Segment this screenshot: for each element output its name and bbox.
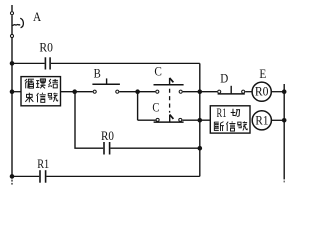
svg-text:B: B [94,66,101,81]
svg-text:A: A [33,9,42,24]
box 循環結束信號 [21,77,61,106]
wire C NC to box2 [182,119,210,121]
switch A blade [12,24,20,25]
right rail dashed continuation [283,181,285,183]
contact C NC terminal left [156,118,159,121]
junction dot rail/row1 [10,61,15,66]
branch vertical from box1 output down [75,92,103,149]
pushbutton D bar (below circles) [218,93,245,95]
contact C NO arrow stem [169,78,171,85]
svg-text:D: D [220,70,228,85]
svg-text:R0: R0 [39,41,53,55]
main right vertical drop (x=199.8) [199,63,201,176]
contact R1 bars [40,170,46,183]
pushbutton B bar [92,83,120,85]
contact R0 (branch) bars [104,142,110,155]
pushbutton D stem [230,86,232,94]
wire coil R0 to right rail [272,91,285,93]
contact C NC terminal right [179,118,182,121]
switch A terminal (bottom) [10,34,13,37]
junction dot lower C row / vertical [198,118,203,123]
wire bottom row left [12,175,39,177]
wire branch contact to vertical [110,147,199,149]
junction dot right rail R1 row [282,118,287,123]
junction dot right rail row2 [282,89,287,94]
mechanical link dashed line [169,89,171,113]
left rail dashed continuation [11,180,13,185]
junction dot rail/row2 [10,89,15,94]
wire row1 right (contact to drop corner) [51,62,200,64]
contact C NO terminal left [156,90,159,93]
wire B to junction [119,91,155,93]
wire C to drop junction [183,91,218,93]
junction dot branch row / vertical [198,146,203,151]
contact C NO bar [154,84,184,86]
left power rail [11,5,13,179]
box R1 切斷信號 [210,106,250,133]
wire rail to box1 [12,91,21,93]
wire box1 to B [61,91,93,93]
svg-text:R1: R1 [217,106,227,120]
svg-text:R0: R0 [255,85,269,99]
wire D to coil R0 [245,91,252,93]
contact C NO terminal right [179,90,182,93]
svg-text:C: C [154,63,162,78]
junction dot box1 output [72,89,77,94]
wire coil R1 to right rail [272,119,285,121]
contact R0 (row1) bars [45,57,50,69]
pushbutton B terminal right [116,90,119,93]
junction dot rail bottom row [10,174,15,179]
junction dot main vertical/row2 [198,89,203,94]
pushbutton D (NC) terminal right [242,90,245,93]
box2 text line2 斷信號 [214,121,247,131]
contact C NC arrow stem [169,115,171,123]
contact C NC arrow flag [170,115,174,119]
pushbutton B terminal left [93,90,96,93]
wire lower C row left [138,119,156,121]
contact C NC bar (below circles) [154,121,184,123]
pushbutton B stem [106,78,108,84]
switch A arc actuator [20,18,23,28]
pushbutton D (NC) terminal left [218,90,221,93]
svg-text:R1: R1 [255,114,268,128]
coil R1 circle [252,111,271,130]
wire row1 left (rail to contact R0) [12,62,45,64]
right power rail [283,84,285,179]
switch A terminal (top) [10,12,13,15]
svg-text:C: C [152,100,159,115]
B drop vertical [137,92,139,121]
contact C NO arrow flag [170,78,174,82]
svg-text:R0: R0 [101,129,114,143]
box1 text line1 循環結 [25,79,58,88]
wire bottom row right [46,175,199,177]
junction dot B drop [135,89,140,94]
box1 text line2 束信號 [25,93,57,103]
svg-text:R1: R1 [37,157,49,171]
svg-text:E: E [259,66,266,81]
coil R0 circle [252,82,271,101]
